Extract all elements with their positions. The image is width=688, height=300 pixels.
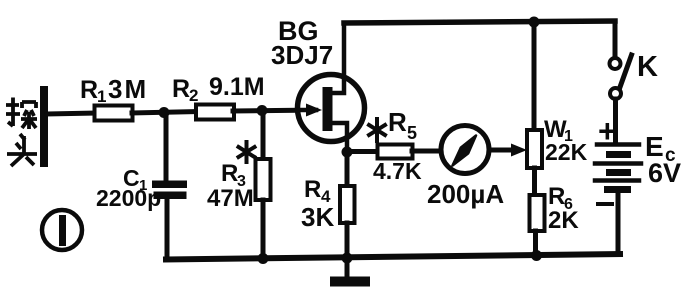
battery Ec bbox=[595, 145, 641, 194]
svg-text:R: R bbox=[221, 160, 238, 187]
label C1 2200p bbox=[96, 165, 161, 211]
wire: R5 to meter bbox=[412, 149, 442, 154]
wire: junction down to R3 bbox=[261, 111, 266, 160]
svg-text:R: R bbox=[388, 107, 407, 137]
svg-text:R: R bbox=[172, 75, 190, 103]
svg-text:3K: 3K bbox=[301, 202, 334, 232]
wire: R1 to R2 bbox=[132, 112, 197, 114]
label W1 22K bbox=[544, 116, 588, 165]
figure marker circle 1 bbox=[42, 210, 82, 250]
resistor R5 bbox=[378, 145, 413, 159]
label R3 47M with asterisk bbox=[239, 142, 255, 162]
label + bbox=[598, 113, 617, 149]
label R5 4.7K with asterisk bbox=[369, 119, 385, 141]
wire: C1 to bottom rail bbox=[165, 199, 170, 259]
wire: source node to R5 bbox=[347, 149, 378, 154]
label BG 3DJ7 bbox=[271, 16, 333, 70]
capacitor C1 bbox=[152, 181, 187, 200]
svg-text:4.7K: 4.7K bbox=[373, 158, 422, 184]
label R1 3M bbox=[80, 74, 148, 106]
wire: top rail bbox=[344, 21, 615, 23]
svg-text:R: R bbox=[80, 76, 98, 104]
svg-text:+: + bbox=[598, 113, 617, 149]
svg-text:5: 5 bbox=[407, 123, 417, 143]
svg-text:1: 1 bbox=[97, 87, 106, 106]
label R2 9.1M bbox=[172, 73, 265, 105]
wire: R2 to gate of BG bbox=[233, 110, 318, 111]
probe electrode (探头) bbox=[40, 86, 48, 167]
svg-text:2: 2 bbox=[189, 86, 198, 105]
ground bbox=[330, 258, 370, 287]
svg-text:R: R bbox=[304, 176, 321, 203]
svg-text:200µA: 200µA bbox=[427, 179, 504, 209]
node: bottom rail / R6 junction bbox=[531, 250, 542, 261]
switch K bbox=[610, 55, 632, 99]
wire: probe to R1 bbox=[47, 113, 95, 114]
node: R3 bottom junction bbox=[258, 253, 269, 264]
label Ec 6V bbox=[645, 131, 681, 188]
potentiometer W1 bbox=[527, 130, 542, 168]
wire: down to C1 bbox=[164, 113, 169, 181]
wire: W1 to R6 bbox=[532, 168, 537, 196]
node: junction R2/R3 bbox=[257, 105, 268, 116]
label R4 3K bbox=[301, 176, 334, 232]
svg-text:3M: 3M bbox=[108, 74, 148, 104]
resistor R3 bbox=[256, 159, 271, 200]
wire: top rail to switch bbox=[613, 21, 618, 58]
resistor R6 bbox=[530, 195, 545, 231]
svg-text:22K: 22K bbox=[545, 139, 588, 165]
svg-text:2K: 2K bbox=[548, 207, 579, 234]
resistor R1 bbox=[95, 106, 133, 121]
node: source junction bbox=[342, 147, 353, 158]
wire: meter to W1 wiper bbox=[489, 148, 515, 153]
label R6 2K bbox=[548, 183, 579, 234]
resistor R2 bbox=[196, 105, 234, 120]
svg-text:6V: 6V bbox=[648, 158, 681, 188]
label K bbox=[637, 51, 658, 83]
node: top rail / W1 branch bbox=[529, 17, 540, 28]
svg-text:K: K bbox=[637, 51, 658, 83]
resistor R4 bbox=[340, 186, 355, 223]
node: junction R1/C1 bbox=[159, 107, 170, 118]
svg-text:3DJ7: 3DJ7 bbox=[271, 40, 333, 70]
node: ground junction bbox=[342, 253, 353, 264]
svg-text:2200p: 2200p bbox=[96, 185, 161, 211]
W1 wiper arrow bbox=[511, 144, 527, 157]
wire: top rail down to W1 bbox=[532, 22, 537, 131]
meter M (200uA) bbox=[441, 126, 489, 174]
wire: R3 to bottom rail bbox=[261, 200, 266, 258]
label - bbox=[598, 202, 612, 206]
wire: R4 to bottom rail bbox=[345, 223, 350, 258]
wire: battery to bottom rail bbox=[616, 193, 621, 255]
label 200uA bbox=[427, 179, 504, 209]
wire: source node to R4 bbox=[345, 152, 350, 187]
svg-text:47M: 47M bbox=[207, 185, 254, 212]
label 探 bbox=[6, 98, 37, 130]
svg-text:9.1M: 9.1M bbox=[209, 73, 265, 101]
transistor BG (3DJ7 FET) bbox=[298, 23, 365, 152]
wire: bottom rail bbox=[166, 254, 620, 260]
wire: switch to battery bbox=[613, 99, 618, 143]
label 头 bbox=[7, 134, 37, 166]
wire: R6 to bottom rail bbox=[533, 231, 538, 255]
svg-text:R: R bbox=[548, 183, 565, 210]
